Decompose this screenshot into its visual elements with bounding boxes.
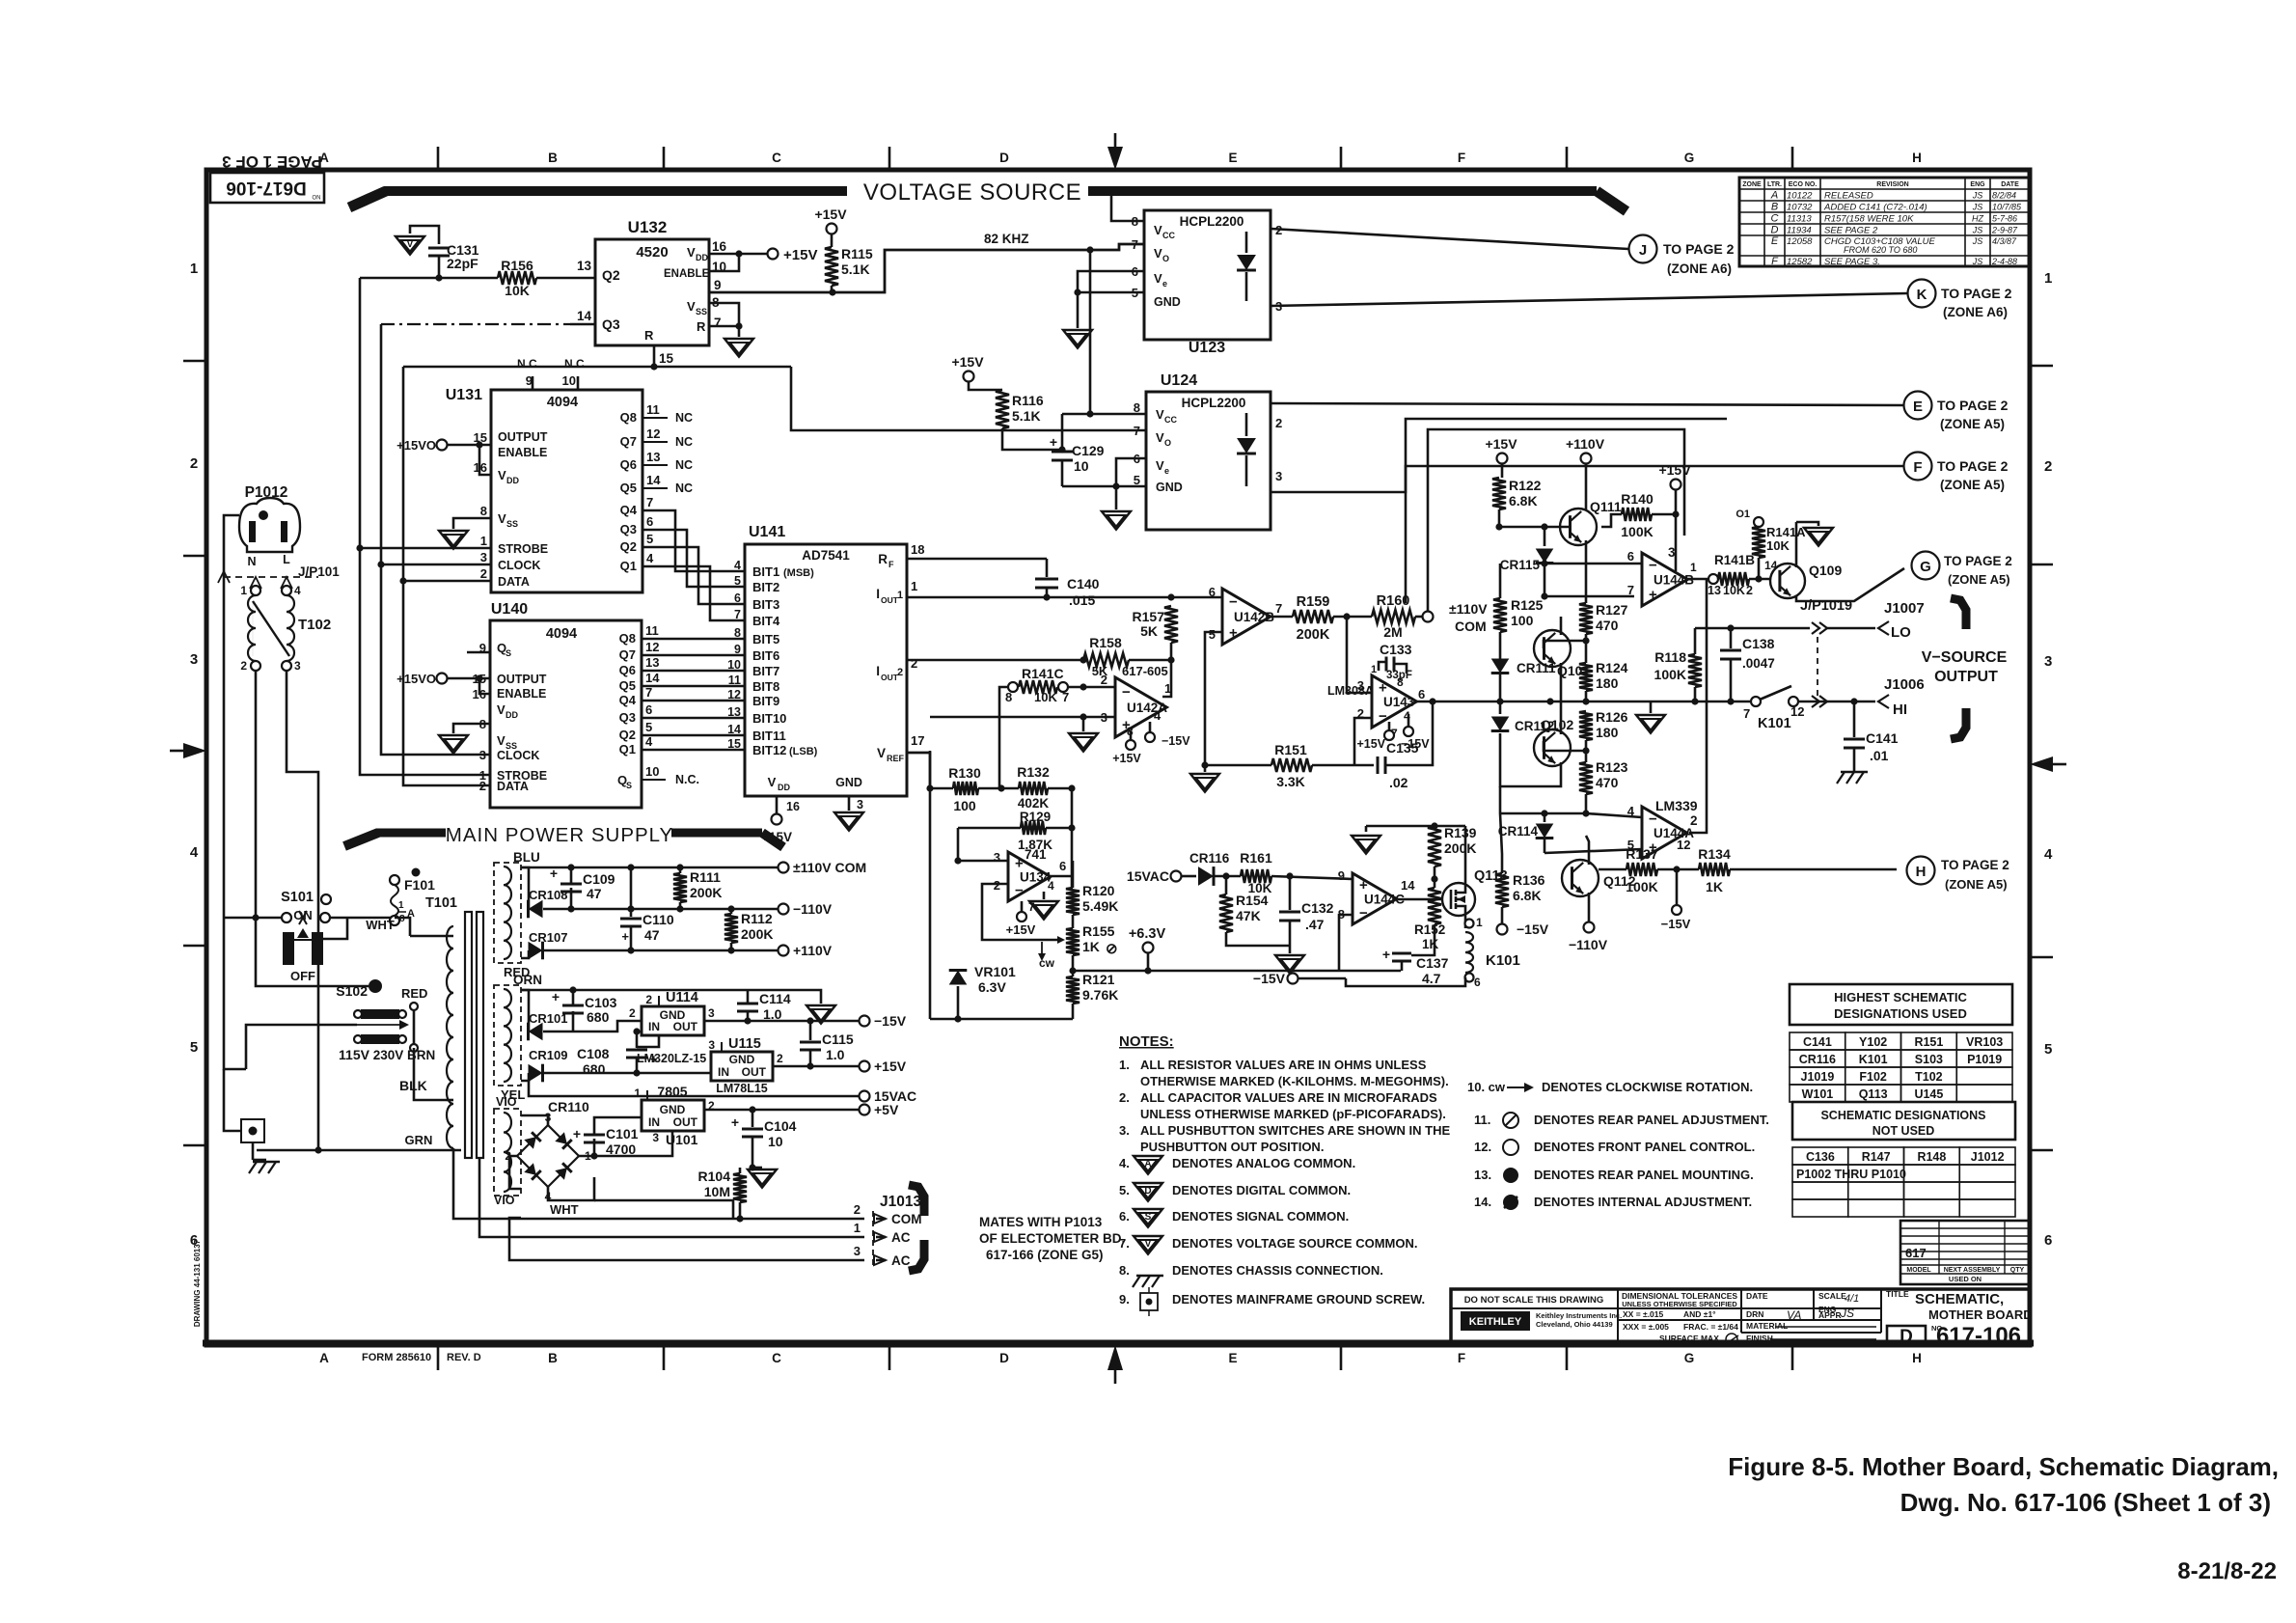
svg-text:V: V (1145, 1239, 1152, 1250)
svg-text:OUT: OUT (881, 595, 899, 605)
op-amp U144B (1627, 545, 1697, 606)
svg-text:+15VO: +15VO (396, 672, 436, 686)
svg-text:402K: 402K (1018, 796, 1050, 811)
resistor R116 5.1K (951, 354, 1062, 450)
svg-text:ALL RESISTOR VALUES ARE IN OHM: ALL RESISTOR VALUES ARE IN OHMS UNLESS (1140, 1058, 1427, 1072)
svg-text:Q1: Q1 (619, 742, 636, 756)
svg-text:Q2: Q2 (619, 728, 636, 742)
resistor R156 10K (498, 258, 570, 298)
svg-text:3: 3 (652, 1131, 659, 1144)
svg-text:SS: SS (506, 519, 518, 529)
svg-text:6.8K: 6.8K (1513, 888, 1542, 903)
svg-text:JS: JS (1840, 1307, 1854, 1320)
switch S101 (224, 890, 395, 983)
resistor R152 1K (1414, 879, 1445, 951)
capacitor C137 4.7 (1382, 924, 1449, 986)
ground (digital common) U123 (1063, 330, 1092, 348)
svg-text:DENOTES MAINFRAME GROUND SCREW: DENOTES MAINFRAME GROUND SCREW. (1172, 1292, 1425, 1307)
svg-text:Q4: Q4 (620, 503, 638, 517)
wire U144B inputs (1541, 564, 1642, 600)
svg-text:200K: 200K (1297, 627, 1330, 643)
svg-text:Q6: Q6 (619, 663, 636, 677)
svg-text:U140: U140 (491, 601, 528, 618)
svg-text:SCHEMATIC,: SCHEMATIC, (1915, 1291, 2004, 1307)
svg-text:VIO: VIO (494, 1194, 515, 1207)
svg-text:V: V (1154, 246, 1162, 261)
note 6 signal common (1119, 1209, 1349, 1227)
connector J1013 (854, 1194, 922, 1268)
svg-text:12582: 12582 (1787, 257, 1813, 267)
svg-text:COM: COM (891, 1212, 922, 1226)
svg-text:Q2: Q2 (620, 539, 637, 554)
svg-text:LO: LO (1891, 624, 1911, 641)
zone numbers right (2030, 270, 2053, 1249)
svg-text:V: V (1156, 458, 1164, 473)
svg-text:+15V: +15V (814, 206, 847, 222)
svg-text:680: 680 (587, 1009, 610, 1025)
svg-text:KEITHLEY: KEITHLEY (1469, 1316, 1522, 1328)
connector bubble K to page 2 (1908, 280, 2012, 320)
winding VIO (494, 1095, 521, 1207)
svg-text:J1012: J1012 (1971, 1150, 2005, 1164)
capacitor C138 .0047 (1720, 628, 1775, 701)
diode CR115 (1500, 527, 1554, 596)
svg-text:10122: 10122 (1787, 191, 1813, 202)
vertical bus wire B (381, 324, 491, 564)
svg-text:IN: IN (718, 1065, 729, 1079)
svg-text:2: 2 (897, 667, 903, 678)
svg-text:OUTPUT: OUTPUT (498, 430, 548, 444)
wire dash-dot U132 pin 14 (381, 323, 570, 325)
transformer T102 (240, 584, 331, 673)
wire T102 pin2 down (255, 671, 258, 918)
svg-text:AND ±1°: AND ±1° (1683, 1309, 1716, 1319)
svg-text:OUTPUT: OUTPUT (1934, 669, 1998, 685)
svg-text:R111: R111 (690, 869, 721, 885)
svg-text:N.C.: N.C. (517, 357, 540, 371)
svg-text:PUSHBUTTON OUT POSITION.: PUSHBUTTON OUT POSITION. (1140, 1140, 1324, 1154)
wire bottom reference loop (930, 1015, 1073, 1022)
svg-text:7: 7 (1743, 706, 1750, 721)
wire CR114 rail (1500, 786, 1590, 854)
svg-text:−110V: −110V (793, 901, 833, 917)
svg-text:VIO: VIO (496, 1095, 517, 1109)
svg-text:E: E (1913, 399, 1923, 415)
svg-text:10K: 10K (1723, 584, 1745, 597)
svg-text:−: − (1229, 594, 1238, 611)
note 9 mainframe ground screw (1119, 1287, 1425, 1316)
svg-text:+15V: +15V (1356, 737, 1385, 751)
wire U143 output rail (1415, 698, 1750, 704)
svg-text:4094: 4094 (546, 626, 577, 642)
svg-text:NC: NC (675, 458, 693, 472)
highest schematic designations table (1790, 984, 2012, 1102)
capacitor C114 1.0 (737, 990, 791, 1025)
note 13 rear panel mounting (1474, 1168, 1754, 1183)
bridge rectifier CR110 (505, 1099, 591, 1203)
svg-text:N.C.: N.C. (675, 773, 699, 786)
svg-text:+15VO: +15VO (396, 438, 436, 453)
svg-text:V: V (497, 733, 506, 748)
svg-text:BIT10: BIT10 (752, 711, 786, 726)
capacitor C135 .02 (1378, 701, 1433, 790)
wire U124 Ve GND ground (1062, 458, 1146, 509)
wire T102 pin3 down to right (287, 671, 318, 1150)
svg-text:R141B: R141B (1714, 553, 1755, 567)
svg-text:WHT: WHT (366, 918, 395, 932)
relay contact K101 (1743, 686, 1875, 731)
svg-text:VOLTAGE SOURCE: VOLTAGE SOURCE (863, 179, 1081, 206)
svg-text:Q3: Q3 (620, 522, 637, 536)
svg-text:6: 6 (1474, 976, 1481, 989)
svg-text:R141C: R141C (1022, 666, 1064, 681)
svg-text:+: + (731, 1114, 739, 1130)
svg-text:SEE PAGE 3.: SEE PAGE 3. (1824, 257, 1880, 267)
svg-text:(ZONE A6): (ZONE A6) (1667, 261, 1732, 276)
ground (voltage source common) near C131 (396, 226, 439, 255)
svg-text:CR109: CR109 (529, 1048, 567, 1062)
svg-text:R137: R137 (1626, 846, 1658, 862)
svg-text:2: 2 (190, 455, 198, 472)
capacitor C108 680 (577, 1028, 658, 1077)
wire GRN (257, 1133, 461, 1154)
svg-text:CR108: CR108 (529, 888, 567, 902)
resistor R161 10K (1240, 850, 1353, 895)
bus wires down to U140 (356, 544, 490, 785)
svg-text:12: 12 (1677, 838, 1690, 852)
svg-text:IN: IN (648, 1020, 660, 1033)
svg-text:1: 1 (911, 579, 917, 593)
svg-text:K101: K101 (1859, 1053, 1888, 1066)
svg-text:R155: R155 (1082, 923, 1115, 939)
svg-text:R104: R104 (698, 1169, 731, 1184)
svg-text:D: D (999, 1351, 1009, 1365)
svg-text:11: 11 (645, 623, 659, 638)
svg-text:10: 10 (768, 1134, 783, 1149)
svg-text:R156: R156 (501, 258, 533, 273)
title block (1451, 1289, 2033, 1345)
svg-text:Figure 8-5. Mother Board, Sche: Figure 8-5. Mother Board, Schematic Diag… (1728, 1452, 2279, 1481)
svg-text:RED: RED (401, 986, 427, 1001)
svg-text:±110V COM: ±110V COM (793, 860, 866, 875)
wires U131 outputs to U141 bits 1-4 (642, 510, 745, 620)
svg-text:DENOTES CLOCKWISE ROTATION.: DENOTES CLOCKWISE ROTATION. (1542, 1080, 1753, 1094)
ground (digital common) U124 (1102, 511, 1131, 530)
svg-text:BIT6: BIT6 (752, 648, 779, 663)
svg-text:+: + (1050, 434, 1057, 450)
svg-text:470: 470 (1596, 775, 1619, 790)
svg-text:C140: C140 (1067, 576, 1100, 591)
wire U142A plus input (930, 713, 1115, 731)
svg-text:P1019: P1019 (1967, 1053, 2002, 1066)
svg-text:3: 3 (857, 798, 863, 811)
V-SOURCE OUTPUT bracket (1922, 598, 2008, 739)
svg-text:±110V: ±110V (1449, 601, 1488, 617)
svg-text:−15V: −15V (1162, 734, 1190, 748)
capacitor C131 22pF (428, 242, 479, 278)
svg-text:15: 15 (659, 351, 674, 366)
svg-text:+110V: +110V (793, 943, 833, 958)
resistor R120 5.49K (1066, 883, 1118, 915)
svg-text:5.49K: 5.49K (1082, 898, 1118, 914)
svg-text:1: 1 (398, 900, 404, 911)
svg-text:JS: JS (1972, 226, 1983, 235)
wire U132 pin 15 reset bus (403, 345, 791, 371)
capacitor C132 .47 (1279, 872, 1334, 946)
connector J/P101 dashed (218, 564, 340, 589)
wire +15VO to U131 (396, 438, 491, 475)
svg-text:2: 2 (645, 993, 652, 1006)
svg-text:+15V: +15V (761, 830, 792, 844)
svg-text:13.: 13. (1474, 1168, 1491, 1182)
svg-text:100: 100 (1511, 613, 1534, 628)
svg-text:CLOCK: CLOCK (497, 749, 539, 762)
chassis ground below C141 (1841, 771, 1868, 773)
svg-text:R136: R136 (1513, 872, 1545, 888)
svg-text:R157: R157 (1133, 609, 1165, 624)
note 3 (1119, 1123, 1450, 1154)
svg-text:V: V (498, 468, 506, 482)
svg-text:U131: U131 (446, 387, 482, 403)
terminal +110V (1566, 436, 1605, 510)
svg-text:R115: R115 (841, 246, 873, 261)
svg-text:7: 7 (1132, 237, 1138, 252)
wire from C131 node to U132 pin 13 (360, 277, 498, 280)
svg-text:617-605: 617-605 (1122, 664, 1168, 678)
svg-text:4: 4 (1154, 708, 1162, 723)
zone letters bottom (319, 1345, 1922, 1370)
regulator U115 LM78L15 (708, 1036, 859, 1095)
wire plug to left bus (224, 515, 239, 918)
svg-text:G: G (1920, 559, 1931, 575)
Keithley logo (1461, 1311, 1622, 1331)
svg-text:RELEASED: RELEASED (1824, 191, 1873, 202)
junction (435, 274, 442, 281)
svg-text:2: 2 (1690, 813, 1698, 828)
note 1 (1119, 1058, 1449, 1088)
svg-text:U142B: U142B (1234, 610, 1274, 624)
supply pins U142A (1112, 722, 1190, 765)
svg-text:R126: R126 (1596, 709, 1628, 725)
resistor R104 10M (698, 1168, 747, 1223)
resistor R158 5K (1080, 635, 1174, 678)
connector J1006 HI (1878, 676, 1925, 718)
resistor R122 6.8K (1492, 478, 1542, 527)
svg-text:I: I (876, 587, 880, 601)
transistor Q112 (1562, 836, 1636, 922)
svg-text:FROM 620 TO 680: FROM 620 TO 680 (1844, 245, 1917, 255)
svg-text:AC: AC (891, 1253, 911, 1268)
svg-text:Q3: Q3 (602, 316, 620, 332)
svg-text:Q113: Q113 (1859, 1087, 1888, 1101)
resistor R159 200K (1293, 594, 1372, 643)
svg-text:DENOTES DIGITAL COMMON.: DENOTES DIGITAL COMMON. (1172, 1183, 1351, 1197)
svg-text:HZ: HZ (1972, 214, 1983, 224)
svg-text:14: 14 (577, 309, 592, 323)
svg-text:13: 13 (646, 450, 660, 464)
wire U143 minus input loop (1354, 718, 1372, 765)
svg-text:47K: 47K (1236, 908, 1261, 923)
svg-text:12.: 12. (1474, 1140, 1491, 1154)
svg-text:7: 7 (1062, 690, 1069, 704)
note 8 chassis connection (1119, 1263, 1383, 1287)
svg-text:+5V: +5V (874, 1102, 899, 1117)
svg-text:4094: 4094 (547, 395, 578, 410)
svg-text:12: 12 (645, 640, 659, 654)
svg-text:GRN: GRN (405, 1133, 433, 1147)
svg-text:T102: T102 (1915, 1070, 1943, 1084)
note MATES WITH P1013 (979, 1215, 1125, 1262)
svg-text:5-7-86: 5-7-86 (1992, 214, 2017, 224)
svg-text:1.: 1. (1119, 1058, 1130, 1072)
svg-text:S101: S101 (281, 890, 314, 905)
svg-text:680: 680 (583, 1061, 606, 1077)
svg-text:O: O (1164, 438, 1171, 448)
svg-text:CR116: CR116 (1189, 851, 1230, 866)
svg-text:4: 4 (1048, 879, 1054, 893)
svg-text:U143: U143 (1383, 695, 1415, 709)
svg-text:R154: R154 (1236, 893, 1269, 908)
svg-text:DENOTES REAR PANEL ADJUSTMENT.: DENOTES REAR PANEL ADJUSTMENT. (1534, 1113, 1769, 1127)
svg-text:13: 13 (577, 259, 592, 273)
svg-text:+6.3V: +6.3V (1129, 926, 1166, 942)
svg-text:V: V (1156, 407, 1164, 422)
svg-text:22pF: 22pF (447, 256, 478, 271)
svg-text:AC: AC (891, 1230, 911, 1245)
ground (voltage source common) below U142B (1190, 765, 1219, 792)
svg-text:14.: 14. (1474, 1195, 1491, 1209)
svg-text:C138: C138 (1742, 636, 1775, 651)
svg-text:ALL PUSHBUTTON SWITCHES ARE SH: ALL PUSHBUTTON SWITCHES ARE SHOWN IN THE (1140, 1123, 1450, 1138)
svg-text:3: 3 (190, 651, 198, 668)
ground (voltage source common) near R141A (1796, 522, 1833, 546)
svg-text:Q5: Q5 (619, 678, 636, 693)
zener diode VR101 6.3V (949, 964, 1016, 1019)
terminal 15VAC supply (529, 1081, 916, 1104)
svg-text:BIT2: BIT2 (752, 580, 779, 594)
relay coil K101 (1346, 915, 1520, 989)
svg-text:2: 2 (479, 779, 486, 793)
svg-text:10K: 10K (1766, 538, 1790, 553)
svg-text:230V BRN: 230V BRN (373, 1048, 436, 1062)
svg-text:J1007: J1007 (1884, 600, 1925, 617)
ground (analog common) below C132 (1275, 946, 1304, 974)
zone numbers left (183, 261, 206, 1249)
svg-text:LM339: LM339 (1655, 798, 1698, 813)
ground (voltage source common) U142A input (1069, 733, 1098, 752)
resistor R115 5.1K (814, 206, 872, 292)
svg-text:DD: DD (696, 253, 708, 262)
svg-text:E: E (1771, 235, 1779, 247)
svg-text:V: V (1156, 430, 1164, 445)
svg-text:CR114: CR114 (1498, 824, 1539, 839)
winding ORN (494, 973, 542, 1102)
svg-text:1.0: 1.0 (763, 1006, 782, 1022)
svg-text:15VAC: 15VAC (1127, 868, 1169, 884)
svg-text:200K: 200K (1444, 840, 1476, 856)
svg-text:TO PAGE 2: TO PAGE 2 (1944, 554, 2012, 568)
svg-text:18: 18 (911, 542, 924, 557)
op-amp U144C (1338, 868, 1415, 924)
svg-text:12: 12 (646, 426, 660, 441)
svg-text:F: F (1458, 151, 1465, 165)
svg-text:CR107: CR107 (529, 930, 567, 945)
resistor R129 1.87K (958, 810, 1072, 852)
svg-text:−: − (1359, 905, 1368, 922)
svg-text:115V: 115V (339, 1047, 370, 1062)
svg-text:−15V: −15V (1253, 971, 1286, 986)
svg-text:NOTES:: NOTES: (1119, 1033, 1174, 1050)
svg-text:B: B (1771, 202, 1778, 213)
capacitor C110 47 (620, 864, 674, 953)
svg-text:R158: R158 (1089, 635, 1122, 650)
svg-text:NC: NC (675, 435, 693, 449)
svg-text:R: R (697, 319, 706, 334)
svg-text:CC: CC (1164, 415, 1177, 425)
svg-text:+: + (1649, 587, 1657, 603)
svg-text:8: 8 (1397, 675, 1404, 689)
svg-text:6.: 6. (1119, 1209, 1130, 1224)
svg-text:8.: 8. (1119, 1263, 1130, 1278)
svg-text:BIT11: BIT11 (752, 729, 786, 743)
supply U134 (1006, 892, 1058, 937)
svg-text:SCALE: SCALE (1818, 1291, 1846, 1301)
svg-text:E: E (1228, 151, 1237, 165)
svg-text:R125: R125 (1511, 597, 1544, 613)
svg-text:L: L (283, 553, 290, 566)
svg-text:1: 1 (1164, 681, 1171, 696)
svg-text:R147: R147 (1862, 1150, 1891, 1164)
svg-text:R112: R112 (741, 911, 773, 926)
wire U144A inputs (1544, 813, 1642, 853)
svg-text:J/P101: J/P101 (298, 564, 340, 579)
svg-text:617-106: 617-106 (1936, 1323, 2021, 1349)
svg-text:741: 741 (1025, 847, 1047, 862)
svg-text:Q7: Q7 (620, 434, 637, 449)
right border arrow (2030, 756, 2053, 772)
svg-text:+: + (1359, 877, 1368, 894)
resistor R130 100 (926, 765, 1019, 813)
transistor Q102 (1500, 701, 1573, 786)
wire R129 node vertical (958, 788, 1076, 888)
junction (1167, 593, 1174, 600)
wire Q113 drain up (1459, 826, 1465, 884)
svg-text:Q102: Q102 (1541, 717, 1573, 732)
svg-text:QTY: QTY (2010, 1267, 2025, 1274)
fuse F101 (390, 868, 435, 937)
svg-text:D: D (1900, 1327, 1913, 1347)
svg-text:V: V (687, 299, 696, 314)
svg-text:6.3V: 6.3V (978, 979, 1006, 995)
svg-text:1: 1 (2044, 270, 2052, 287)
wire U123 VCC (1111, 189, 1144, 221)
MOSFET Q113 (1398, 868, 1508, 916)
svg-text:B: B (548, 151, 558, 165)
svg-text:+: + (552, 989, 560, 1004)
photodiode inside U123 (1237, 232, 1256, 301)
wire +6.3V node (1073, 926, 1401, 975)
svg-text:2: 2 (777, 1052, 783, 1065)
mainframe ground screw (224, 1069, 264, 1160)
svg-text:TO PAGE 2: TO PAGE 2 (1937, 458, 2009, 474)
svg-text:ENG: ENG (1970, 181, 1985, 188)
svg-text:10K: 10K (505, 283, 530, 298)
svg-text:6: 6 (645, 702, 652, 717)
wire U134 output to R120 (1051, 861, 1073, 888)
svg-text:JS: JS (1972, 257, 1983, 266)
ground (digital common) U141 GND pin 3 (834, 796, 863, 831)
svg-text:VR103: VR103 (1966, 1035, 2003, 1049)
